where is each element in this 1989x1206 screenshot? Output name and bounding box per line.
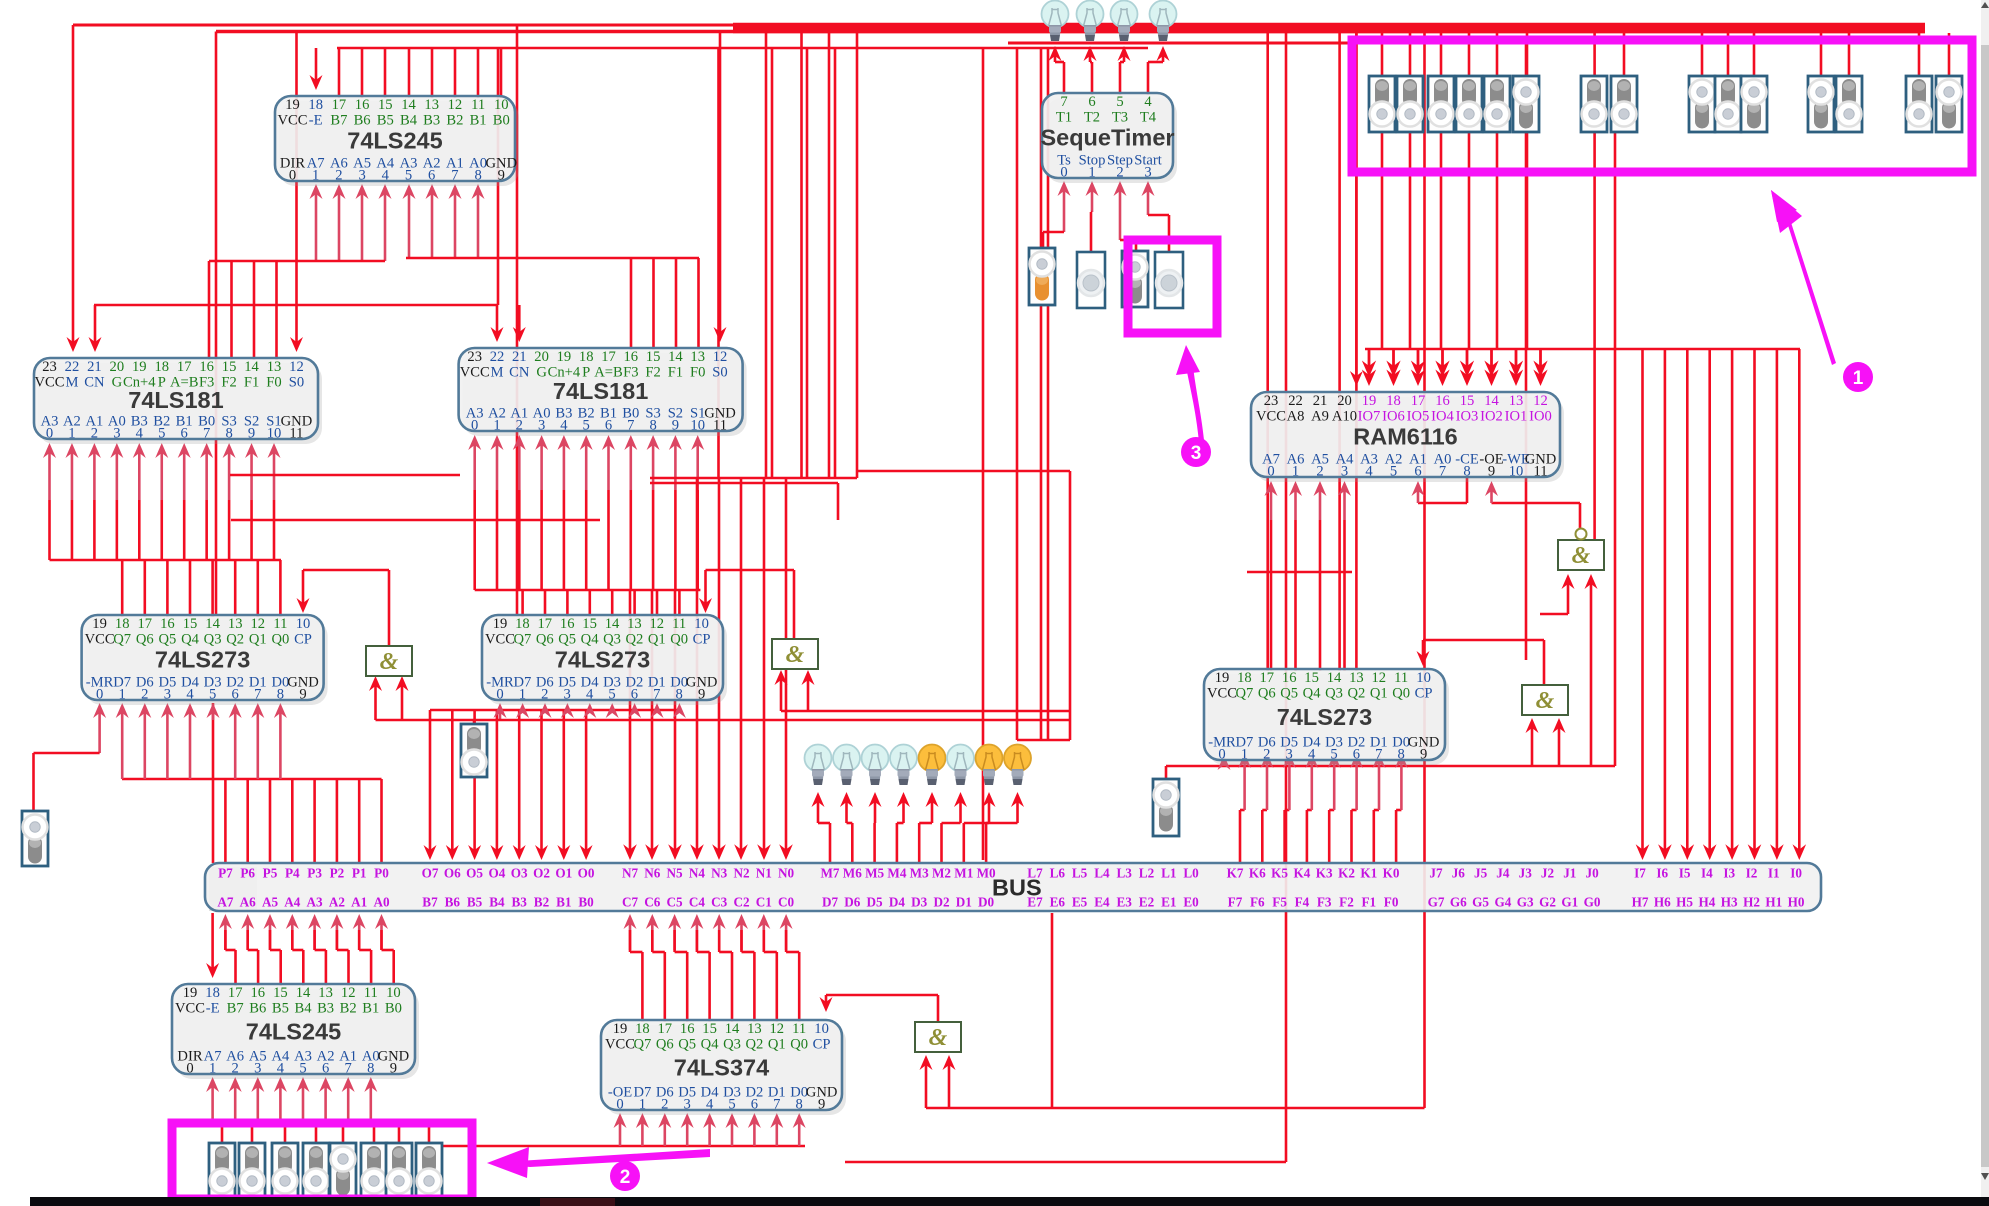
- svg-text:16: 16: [199, 359, 214, 375]
- svg-text:2: 2: [232, 1061, 239, 1077]
- svg-text:3: 3: [1144, 165, 1151, 181]
- wire - horizontal y720 AND A inputs: [376, 719, 1071, 722]
- svg-text:B6: B6: [445, 895, 461, 910]
- svg-text:A10: A10: [1332, 409, 1357, 425]
- svg-text:74LS273: 74LS273: [555, 646, 650, 672]
- wire - horizontal y710 O-staircase: [430, 709, 681, 712]
- svg-text:O7: O7: [422, 866, 439, 881]
- svg-text:5: 5: [1390, 464, 1397, 480]
- svg-text:9: 9: [1420, 747, 1427, 763]
- svg-text:VCC: VCC: [1256, 409, 1286, 425]
- svg-text:J0: J0: [1586, 866, 1600, 881]
- svg-text:16: 16: [560, 616, 575, 632]
- svg-text:Q7: Q7: [633, 1037, 651, 1053]
- svg-text:20: 20: [1337, 393, 1352, 409]
- svg-text:17: 17: [601, 349, 616, 365]
- svg-text:Q0: Q0: [1392, 686, 1410, 702]
- svg-text:K5: K5: [1271, 866, 1288, 881]
- svg-text:&: &: [1572, 543, 1591, 569]
- svg-text:B0: B0: [385, 1001, 402, 1017]
- svg-text:B4: B4: [294, 1001, 312, 1017]
- wire - mid bulbs staircase: [817, 798, 820, 823]
- svg-text:0: 0: [1267, 464, 1274, 480]
- svg-text:3: 3: [1286, 747, 1293, 763]
- svg-text:IO6: IO6: [1382, 409, 1405, 425]
- svg-text:13: 13: [690, 349, 705, 365]
- svg-text:1: 1: [493, 418, 500, 434]
- svg-text:D7: D7: [822, 895, 839, 910]
- lamp M5 (mid): [862, 745, 889, 786]
- svg-text:20: 20: [534, 349, 549, 365]
- svg-text:14: 14: [244, 359, 259, 375]
- wire - horizontal y560: [50, 559, 282, 562]
- wire - top power rail thick segment: [733, 23, 1925, 34]
- svg-text:L5: L5: [1072, 866, 1088, 881]
- svg-text:CN: CN: [84, 375, 105, 391]
- svg-text:B4: B4: [489, 895, 505, 910]
- svg-text:23: 23: [42, 359, 57, 375]
- svg-text:P6: P6: [240, 866, 255, 881]
- svg-text:15: 15: [702, 1021, 717, 1037]
- annotation circle 3: [1181, 437, 1211, 467]
- svg-text:Q5: Q5: [1280, 686, 1298, 702]
- wire - verticals h7 to U3 F-pins: [630, 258, 633, 350]
- svg-text:7: 7: [773, 1097, 780, 1113]
- svg-text:2: 2: [141, 687, 148, 703]
- wire - right mid switch link: [1165, 766, 1168, 780]
- svg-text:A1: A1: [351, 895, 367, 910]
- svg-text:C5: C5: [667, 895, 684, 910]
- svg-text:10: 10: [267, 426, 282, 442]
- svg-text:4: 4: [1308, 747, 1316, 763]
- svg-text:H3: H3: [1721, 895, 1738, 910]
- svg-text:A6: A6: [240, 895, 257, 910]
- svg-text:G4: G4: [1494, 895, 1511, 910]
- svg-text:F0: F0: [266, 375, 281, 391]
- svg-text:22: 22: [65, 359, 80, 375]
- wire - AND D inputs: [1567, 580, 1570, 614]
- wire - horizontal y471: [857, 470, 1070, 473]
- svg-text:74LS181: 74LS181: [553, 378, 648, 404]
- svg-text:4: 4: [382, 168, 390, 184]
- svg-text:B1: B1: [556, 895, 571, 910]
- svg-text:7: 7: [627, 418, 634, 434]
- switch SW-B4 (bottom box): [303, 1143, 329, 1199]
- svg-text:G: G: [536, 365, 547, 381]
- svg-text:17: 17: [138, 616, 153, 632]
- svg-text:CP: CP: [813, 1037, 831, 1053]
- wire - U6 bottom stubs: [211, 1083, 214, 1120]
- svg-text:10: 10: [1509, 464, 1524, 480]
- svg-text:O6: O6: [444, 866, 461, 881]
- svg-text:I2: I2: [1746, 866, 1758, 881]
- lamp T4 (top): [1150, 1, 1177, 42]
- svg-text:P2: P2: [330, 866, 345, 881]
- svg-text:3: 3: [254, 1061, 261, 1077]
- svg-text:9: 9: [390, 1061, 397, 1077]
- svg-text:8: 8: [225, 426, 232, 442]
- svg-text:12: 12: [341, 985, 356, 1001]
- svg-text:13: 13: [228, 616, 243, 632]
- svg-text:2: 2: [1263, 747, 1270, 763]
- svg-text:8: 8: [796, 1097, 803, 1113]
- svg-text:J1: J1: [1563, 866, 1576, 881]
- wire - horizontal y572 under RAM: [1247, 571, 1352, 574]
- wire - vertical x1070: [1069, 471, 1072, 740]
- svg-text:T2: T2: [1084, 110, 1100, 126]
- wire - stub into U3 pin12: [719, 32, 722, 337]
- lamp M6 (mid): [833, 745, 860, 786]
- svg-text:C1: C1: [756, 895, 772, 910]
- svg-text:B6: B6: [354, 113, 371, 129]
- svg-text:17: 17: [228, 985, 243, 1001]
- svg-text:10: 10: [690, 418, 705, 434]
- svg-text:I1: I1: [1768, 866, 1780, 881]
- switch SW1 (top box): [1369, 76, 1395, 132]
- svg-text:14: 14: [1484, 393, 1499, 409]
- svg-text:8: 8: [1463, 464, 1470, 480]
- lamp T3 (top): [1111, 1, 1138, 42]
- wire - RAM bottom A-pin stubs: [1270, 487, 1273, 520]
- chip U8 74LS273 right: [1204, 669, 1449, 765]
- svg-text:CN: CN: [509, 365, 530, 381]
- svg-text:14: 14: [205, 616, 220, 632]
- svg-text:M7: M7: [820, 866, 839, 881]
- wire - box1 switch top stubs: [1381, 33, 1384, 78]
- svg-text:P4: P4: [285, 866, 300, 881]
- svg-text:2: 2: [1116, 165, 1123, 181]
- wire - horizontal y1162: [845, 1161, 1286, 1164]
- svg-text:N5: N5: [667, 866, 684, 881]
- svg-text:A3: A3: [307, 895, 324, 910]
- svg-text:1: 1: [1853, 368, 1864, 389]
- svg-text:IO7: IO7: [1358, 409, 1381, 425]
- svg-text:VCC: VCC: [34, 375, 64, 391]
- svg-text:12: 12: [650, 616, 665, 632]
- svg-text:A5: A5: [262, 895, 279, 910]
- svg-text:9: 9: [1488, 464, 1495, 480]
- svg-text:2: 2: [91, 426, 98, 442]
- svg-text:8: 8: [1398, 747, 1405, 763]
- switch SW3 (top box): [1428, 76, 1454, 132]
- wire - RAM bottom CE loop: [1466, 477, 1469, 503]
- wire - vertical x216 long: [215, 32, 218, 615]
- svg-text:Q7: Q7: [513, 632, 531, 648]
- svg-text:VCC: VCC: [485, 632, 515, 648]
- svg-text:74LS273: 74LS273: [155, 646, 250, 672]
- wire - long vertical x983 to BUS: [982, 48, 985, 860]
- svg-text:5: 5: [299, 1061, 306, 1077]
- svg-text:BUS: BUS: [992, 875, 1042, 901]
- switch SW2 (top box): [1397, 76, 1423, 132]
- svg-text:9: 9: [672, 418, 679, 434]
- svg-text:Q2: Q2: [745, 1037, 763, 1053]
- svg-text:IO5: IO5: [1407, 409, 1430, 425]
- svg-text:C3: C3: [711, 895, 728, 910]
- switch SW-B5 (bottom box): [330, 1143, 356, 1199]
- svg-text:F4: F4: [1295, 895, 1310, 910]
- svg-text:7: 7: [1375, 747, 1382, 763]
- wire - O group verticals into BUS top: [429, 710, 432, 852]
- svg-text:Q2: Q2: [1347, 686, 1365, 702]
- svg-text:A8: A8: [1287, 409, 1305, 425]
- switch SW-T2: [1122, 251, 1148, 307]
- svg-text:Q1: Q1: [768, 1037, 786, 1053]
- wire - horizontal y590: [475, 589, 701, 592]
- svg-text:8: 8: [474, 168, 481, 184]
- svg-text:1: 1: [119, 687, 126, 703]
- wire - U3 bottom columns to band: [473, 490, 476, 590]
- wire - U4 D3 straight to bus: [212, 703, 215, 863]
- AND gate C: [1522, 685, 1568, 715]
- switch SW-R (right mid): [1153, 779, 1179, 836]
- svg-text:15: 15: [1304, 670, 1319, 686]
- svg-text:3: 3: [1191, 443, 1202, 464]
- wire - mid long verticals from top rail to y478 band: [717, 48, 720, 478]
- switch SW-T1 (orange): [1029, 248, 1055, 305]
- wire - vertical x498 y305-y48: [497, 48, 500, 305]
- svg-text:9: 9: [498, 168, 505, 184]
- switch SW15 (top box): [1936, 76, 1962, 132]
- wire - horizontal feeder y48: [337, 47, 1148, 50]
- svg-text:F6: F6: [1250, 895, 1265, 910]
- svg-text:B1: B1: [470, 113, 487, 129]
- svg-text:Q7: Q7: [1235, 686, 1253, 702]
- svg-text:C2: C2: [733, 895, 750, 910]
- svg-text:21: 21: [512, 349, 527, 365]
- wire - top power rail upper: [73, 24, 1925, 27]
- annotation arrow 3: [1186, 366, 1204, 442]
- svg-text:A0: A0: [373, 895, 390, 910]
- svg-text:Q5: Q5: [158, 632, 176, 648]
- svg-text:Q7: Q7: [113, 632, 131, 648]
- svg-text:B7: B7: [227, 1001, 244, 1017]
- svg-text:D1: D1: [956, 895, 972, 910]
- svg-text:19: 19: [92, 616, 107, 632]
- chip U10 SequeTimer: [1040, 93, 1177, 183]
- svg-text:M: M: [65, 375, 78, 391]
- wire - horizontal y740: [1017, 739, 1070, 742]
- svg-text:H2: H2: [1743, 895, 1760, 910]
- svg-text:11: 11: [1394, 670, 1408, 686]
- svg-text:7: 7: [1439, 464, 1446, 480]
- svg-text:3: 3: [538, 418, 545, 434]
- svg-text:C6: C6: [644, 895, 661, 910]
- svg-text:18: 18: [579, 349, 594, 365]
- svg-text:A4: A4: [284, 895, 301, 910]
- svg-text:Q6: Q6: [136, 632, 154, 648]
- chip U6 74LS245 bottom: [172, 984, 419, 1079]
- svg-text:9: 9: [818, 1097, 825, 1113]
- svg-text:18: 18: [115, 616, 130, 632]
- svg-text:18: 18: [1386, 393, 1401, 409]
- svg-text:21: 21: [87, 359, 102, 375]
- svg-text:J5: J5: [1474, 866, 1488, 881]
- svg-text:17: 17: [332, 97, 347, 113]
- svg-text:19: 19: [183, 985, 198, 1001]
- wire - stub into RAM pin20: [1355, 32, 1358, 381]
- svg-text:2: 2: [335, 168, 342, 184]
- svg-text:M2: M2: [932, 866, 951, 881]
- svg-text:11: 11: [672, 616, 686, 632]
- svg-text:J3: J3: [1519, 866, 1533, 881]
- svg-text:0: 0: [616, 1097, 623, 1113]
- svg-text:11: 11: [792, 1021, 806, 1037]
- svg-text:74LS245: 74LS245: [246, 1018, 341, 1044]
- switch SW11 (top box): [1741, 76, 1767, 132]
- annotation arrow 1: [1771, 190, 1836, 365]
- svg-text:P1: P1: [352, 866, 367, 881]
- svg-text:N1: N1: [756, 866, 772, 881]
- svg-text:74LS245: 74LS245: [347, 127, 442, 153]
- svg-text:E6: E6: [1050, 895, 1066, 910]
- svg-text:&: &: [380, 649, 399, 675]
- svg-text:I3: I3: [1723, 866, 1735, 881]
- svg-text:G: G: [112, 375, 123, 391]
- svg-text:0: 0: [1060, 165, 1067, 181]
- BUS bar: [205, 863, 1821, 911]
- wire - stub into U3 pin21: [518, 305, 521, 336]
- svg-text:Q1: Q1: [1370, 686, 1388, 702]
- wire - verticals from rail through RAM region: [1266, 32, 1269, 672]
- svg-text:4: 4: [186, 687, 194, 703]
- chip U3 74LS181 right: [459, 348, 747, 436]
- svg-text:11: 11: [713, 418, 727, 434]
- switch SW-B8 (bottom box): [416, 1143, 442, 1199]
- svg-text:11: 11: [471, 97, 485, 113]
- svg-text:8: 8: [367, 1061, 374, 1077]
- svg-text:19: 19: [557, 349, 572, 365]
- wire - horizontal y258: [406, 257, 699, 260]
- svg-text:G0: G0: [1584, 895, 1601, 910]
- chip U2 74LS181 left: [34, 358, 322, 444]
- switch SW-B7 (bottom box): [386, 1143, 412, 1199]
- svg-text:3: 3: [164, 687, 171, 703]
- svg-text:5: 5: [608, 687, 615, 703]
- wire - timer bottom stubs: [1063, 187, 1066, 232]
- svg-text:14: 14: [401, 97, 416, 113]
- svg-text:3: 3: [358, 168, 365, 184]
- svg-text:P5: P5: [263, 866, 278, 881]
- svg-text:13: 13: [1509, 393, 1524, 409]
- svg-text:0: 0: [46, 426, 53, 442]
- svg-text:19: 19: [285, 97, 300, 113]
- svg-text:16: 16: [1435, 393, 1450, 409]
- switch SW6 (top box): [1513, 76, 1539, 132]
- svg-text:9: 9: [299, 687, 306, 703]
- svg-text:N2: N2: [733, 866, 750, 881]
- svg-text:Q5: Q5: [678, 1037, 696, 1053]
- svg-text:16: 16: [624, 349, 639, 365]
- svg-text:G3: G3: [1517, 895, 1534, 910]
- svg-text:O3: O3: [511, 866, 528, 881]
- wire - RAM IO staircase horizontal y349: [1365, 348, 1800, 351]
- svg-text:A9: A9: [1311, 409, 1329, 425]
- svg-text:74LS374: 74LS374: [674, 1054, 769, 1080]
- svg-text:H0: H0: [1788, 895, 1805, 910]
- svg-text:O1: O1: [555, 866, 572, 881]
- svg-text:0: 0: [289, 168, 296, 184]
- svg-text:10: 10: [296, 616, 311, 632]
- svg-text:8: 8: [676, 687, 683, 703]
- switch SW5 (top box): [1484, 76, 1510, 132]
- scrollbar up arrow: [1981, 2, 1989, 8]
- svg-text:14: 14: [668, 349, 683, 365]
- switch SW7 (top box): [1581, 76, 1607, 132]
- svg-text:12: 12: [1372, 670, 1387, 686]
- svg-text:5: 5: [1330, 747, 1337, 763]
- wire - U5 -MR stub: [499, 709, 502, 720]
- wire - S8 long vertical: [1614, 132, 1617, 766]
- svg-text:18: 18: [515, 616, 530, 632]
- svg-text:19: 19: [613, 1021, 628, 1037]
- svg-text:0: 0: [471, 418, 478, 434]
- wire - I group verticals to BUS top: [1641, 349, 1644, 852]
- svg-text:13: 13: [424, 97, 439, 113]
- svg-text:&: &: [786, 642, 805, 668]
- wire - U7 374 bottom stubs: [619, 1119, 622, 1146]
- svg-text:F7: F7: [1228, 895, 1243, 910]
- lamp M3 (mid): [919, 745, 946, 786]
- svg-text:H1: H1: [1765, 895, 1782, 910]
- svg-text:15: 15: [646, 349, 661, 365]
- wire - C group bus stubs: [629, 920, 632, 950]
- svg-text:CP: CP: [294, 632, 312, 648]
- chip U1 74LS245 top: [275, 96, 519, 186]
- wire - horizontal y478: [650, 477, 857, 480]
- svg-text:12: 12: [289, 359, 304, 375]
- wire - vertical x517 long: [516, 25, 519, 614]
- svg-text:2: 2: [1316, 464, 1323, 480]
- svg-text:12: 12: [713, 349, 728, 365]
- switch SW8 (top box): [1611, 76, 1637, 132]
- svg-text:0: 0: [1218, 747, 1225, 763]
- svg-text:Q6: Q6: [1258, 686, 1276, 702]
- wire - AND D output to RAM -WE: [1579, 503, 1582, 528]
- svg-text:VCC: VCC: [277, 113, 307, 129]
- svg-text:M: M: [491, 365, 504, 381]
- svg-text:-E: -E: [206, 1001, 220, 1017]
- svg-text:Q2: Q2: [226, 632, 244, 648]
- svg-text:12: 12: [770, 1021, 785, 1037]
- svg-text:1: 1: [68, 426, 75, 442]
- svg-text:16: 16: [355, 97, 370, 113]
- chip U7 74LS374: [601, 1020, 846, 1115]
- svg-text:F1: F1: [1361, 895, 1376, 910]
- wire - U4 -MR stub: [98, 709, 101, 753]
- svg-text:S0: S0: [289, 375, 304, 391]
- svg-text:11: 11: [364, 985, 378, 1001]
- svg-text:0: 0: [96, 687, 103, 703]
- svg-text:B0: B0: [578, 895, 594, 910]
- annotation circle 2: [610, 1161, 640, 1191]
- svg-text:E0: E0: [1183, 895, 1199, 910]
- lamp M0 (mid): [1004, 745, 1031, 786]
- svg-text:M1: M1: [954, 866, 973, 881]
- wire - AND E output to U7 CP: [937, 995, 940, 1023]
- svg-text:B7: B7: [330, 113, 347, 129]
- svg-text:3: 3: [1341, 464, 1348, 480]
- svg-text:0: 0: [186, 1061, 193, 1077]
- svg-text:12: 12: [251, 616, 266, 632]
- svg-text:1: 1: [1241, 747, 1248, 763]
- switch SW-B2 (bottom box): [239, 1143, 265, 1199]
- svg-text:B5: B5: [467, 895, 483, 910]
- svg-text:-E: -E: [309, 113, 323, 129]
- svg-text:1: 1: [519, 687, 526, 703]
- wire - S7 vertical to AND D top: [1593, 132, 1596, 540]
- svg-text:E4: E4: [1094, 895, 1110, 910]
